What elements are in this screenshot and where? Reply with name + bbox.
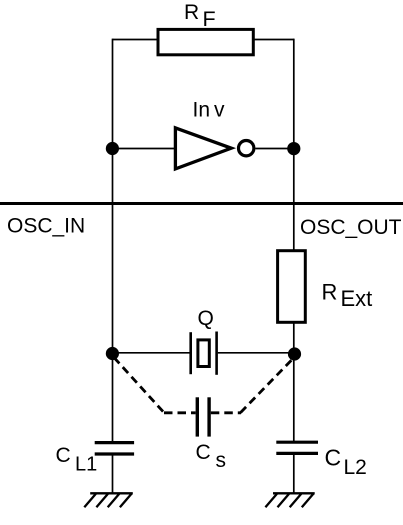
node dot left crystal row — [106, 347, 119, 360]
wire dashed right horizontal — [211, 411, 241, 414]
capacitor CL1 bottom plate — [95, 452, 134, 455]
svg-text:Inv: Inv — [193, 99, 226, 122]
crystal Q left plate — [189, 332, 192, 374]
svg-text:Ext: Ext — [341, 286, 373, 311]
svg-text:C: C — [325, 445, 342, 471]
node dot right inverter row — [287, 142, 300, 155]
resistor RF — [158, 29, 253, 54]
wire right vertical lower — [293, 323, 295, 442]
op-amp inverter triangle — [175, 128, 231, 169]
svg-text:C: C — [196, 441, 211, 464]
wire crystal left — [113, 352, 190, 354]
wire dashed right diagonal — [241, 358, 295, 413]
svg-text:OSC_IN: OSC_IN — [7, 215, 85, 238]
resistor RExt — [278, 251, 306, 323]
wire dashed left diagonal — [114, 358, 164, 413]
capacitor CL2 bottom plate — [276, 452, 318, 455]
svg-text:s: s — [216, 449, 227, 472]
inverter bubble — [239, 141, 254, 156]
chip boundary line — [0, 202, 403, 205]
svg-text:R: R — [322, 280, 338, 305]
svg-text:L2: L2 — [344, 456, 367, 479]
ground left — [84, 493, 133, 507]
capacitor CL2 top plate — [276, 441, 318, 444]
wire top horizontal right segment — [253, 39, 294, 41]
crystal Q body — [198, 340, 209, 367]
wire dashed left horizontal — [164, 411, 196, 414]
wire left vertical — [112, 39, 114, 442]
svg-text:R: R — [184, 1, 199, 24]
svg-text:F: F — [203, 7, 216, 31]
svg-text:Q: Q — [198, 307, 214, 330]
wire crystal right — [218, 352, 294, 354]
capacitor Cs left plate — [196, 397, 199, 436]
wire top horizontal left segment — [113, 39, 159, 41]
svg-text:L1: L1 — [75, 454, 97, 476]
node dot right crystal row — [288, 347, 301, 360]
ground right — [265, 493, 314, 507]
capacitor CL1 top plate — [95, 441, 134, 444]
crystal Q right plate — [215, 332, 218, 375]
wire CL1 to ground — [112, 455, 114, 493]
svg-text:C: C — [56, 444, 71, 467]
capacitor Cs right plate — [207, 397, 210, 436]
wire CL2 to ground — [293, 455, 295, 494]
svg-text:OSC_OUT: OSC_OUT — [300, 216, 402, 239]
wire inverter output — [256, 148, 294, 150]
wire right vertical upper — [293, 39, 295, 251]
node dot left inverter row — [106, 142, 119, 155]
wire inverter input — [113, 148, 177, 150]
